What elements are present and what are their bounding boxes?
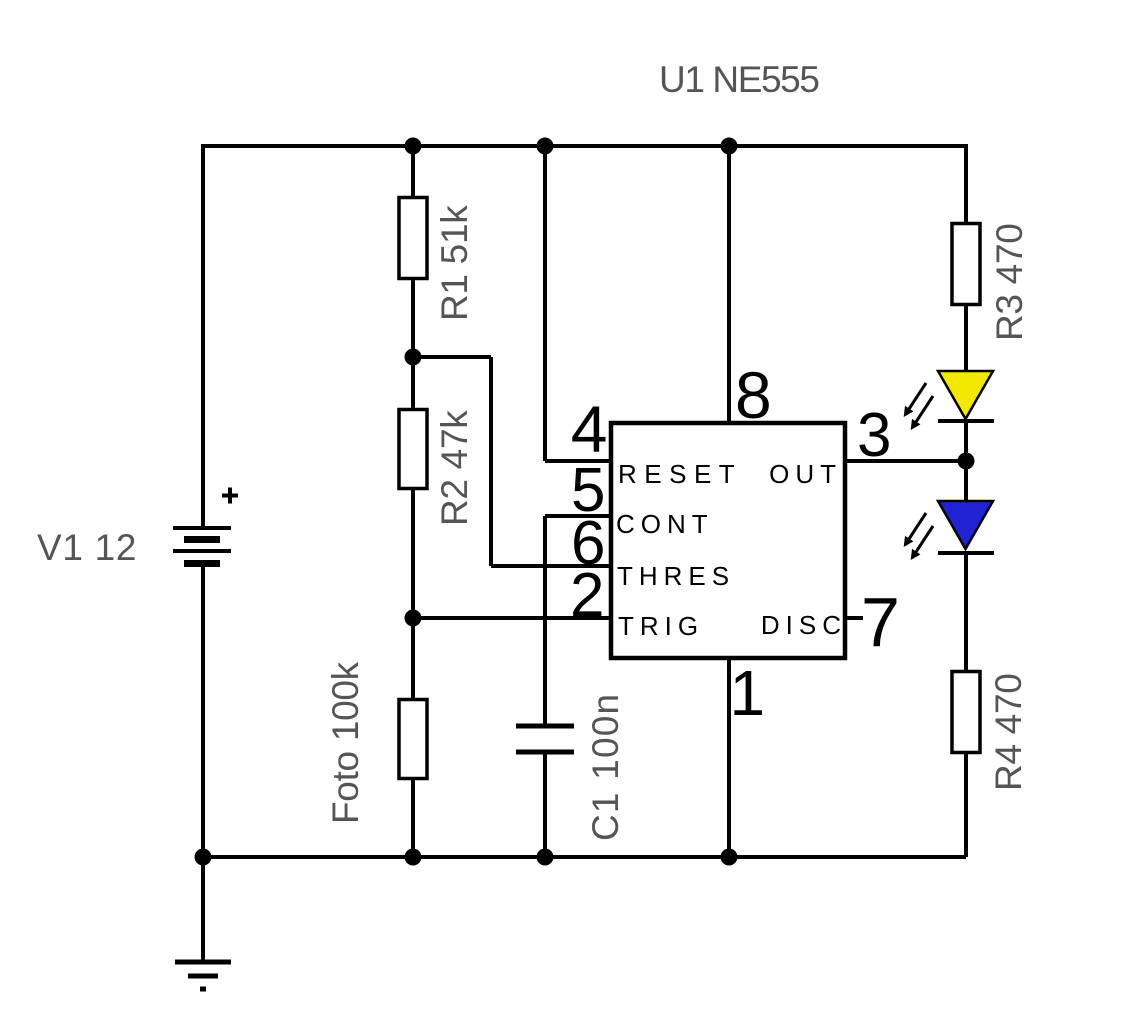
- wire node to R2 top: [411, 357, 415, 410]
- svg-text:Foto 100k: Foto 100k: [325, 661, 366, 824]
- wire LED2 bar to R4: [964, 553, 968, 672]
- battery V1: [173, 488, 238, 568]
- node junction top pin8: [721, 138, 738, 155]
- node junction trig: [405, 610, 422, 627]
- wire R1 bottom to node: [411, 278, 415, 357]
- wire ground stem: [201, 857, 205, 962]
- wire pin1 lead: [727, 658, 731, 857]
- wire top rail: [203, 144, 966, 148]
- node junction bottom pin1: [721, 849, 738, 866]
- wire C1 bottom lead: [543, 752, 547, 857]
- wire R2 bottom to trig node: [411, 488, 415, 618]
- wire pin8 lead: [727, 146, 731, 423]
- node junction bottom ground: [195, 849, 212, 866]
- wire R1 top: [411, 146, 415, 198]
- wire thres vertical: [489, 357, 493, 566]
- wire out node to LED2: [964, 461, 968, 502]
- ground: [175, 962, 231, 989]
- wire R3 to LED1: [964, 304, 968, 372]
- svg-text:THRES: THRES: [617, 561, 735, 591]
- node junction top C1: [537, 138, 554, 155]
- svg-text:CONT: CONT: [616, 509, 714, 539]
- wire pin5 CONT: [545, 514, 611, 518]
- svg-text:R3 470: R3 470: [989, 223, 1030, 341]
- svg-text:OUT: OUT: [769, 459, 842, 489]
- svg-text:3: 3: [857, 401, 891, 470]
- node junction bottom C1: [537, 849, 554, 866]
- wire trig node to Foto top: [411, 618, 415, 700]
- resistor R2: [399, 410, 427, 489]
- LED D1 yellow: [904, 371, 994, 430]
- wire node A horizontal: [413, 355, 491, 359]
- svg-text:1: 1: [730, 657, 766, 729]
- wire right rail to R3: [964, 144, 968, 224]
- wire reset vertical: [543, 146, 547, 461]
- svg-text:7: 7: [861, 583, 900, 661]
- wire pin3 OUT: [845, 459, 966, 463]
- LED D2 blue: [904, 501, 994, 560]
- node junction bottom Foto: [405, 849, 422, 866]
- wire pin4 RESET: [545, 459, 611, 463]
- wire pin7 DISC stub: [845, 616, 863, 620]
- node junction OUT-LEDs: [958, 453, 975, 470]
- resistor R4: [952, 672, 980, 753]
- svg-text:R4 470: R4 470: [988, 673, 1029, 791]
- svg-text:RESET: RESET: [618, 459, 742, 489]
- wire Foto bottom: [411, 778, 415, 857]
- node A junction R1-R2: [405, 349, 422, 366]
- node junction top R1: [405, 138, 422, 155]
- svg-text:U1 NE555: U1 NE555: [659, 59, 819, 100]
- svg-text:DISC: DISC: [761, 610, 847, 640]
- svg-text:C1 100n: C1 100n: [585, 693, 626, 841]
- capacitor C1: [516, 726, 574, 752]
- svg-text:4: 4: [571, 392, 608, 466]
- wire pin2 TRIG: [413, 616, 611, 620]
- svg-text:2: 2: [570, 561, 604, 630]
- resistor R3: [952, 224, 980, 305]
- svg-text:8: 8: [735, 358, 772, 432]
- svg-text:TRIG: TRIG: [618, 611, 704, 641]
- wire pin6 THRES: [491, 564, 611, 568]
- op-amp U1 NE555 box: [611, 423, 845, 658]
- wire bottom rail: [203, 855, 966, 859]
- wire C1 top lead: [543, 516, 547, 726]
- wire LED1 bar to out node: [964, 421, 968, 461]
- wire left rail upper: [201, 144, 205, 528]
- resistor Foto: [399, 700, 427, 779]
- wire R4 to bottom rail: [964, 752, 968, 857]
- svg-text:V1 12: V1 12: [37, 527, 137, 568]
- svg-text:R1 51k: R1 51k: [434, 205, 475, 321]
- resistor R1: [399, 198, 427, 279]
- svg-text:R2 47k: R2 47k: [434, 410, 475, 526]
- wire left rail lower: [201, 566, 205, 857]
